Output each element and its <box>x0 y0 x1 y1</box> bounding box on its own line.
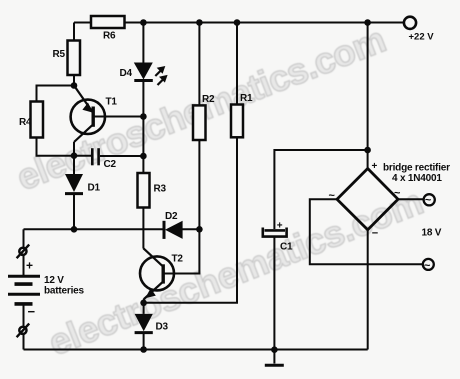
svg-text:~: ~ <box>424 260 431 272</box>
junction node T1 collector / C2 / D1 <box>71 152 78 159</box>
terminal +22V <box>404 17 416 29</box>
transistor T1 <box>71 86 105 156</box>
svg-text:T2: T2 <box>172 254 184 265</box>
wire D3 cathode to bottom rail <box>143 333 145 350</box>
wire D4 line from rail <box>142 23 144 63</box>
wire base node down to C2 node <box>142 117 144 157</box>
svg-text:~: ~ <box>329 190 336 202</box>
resistor R3 <box>138 173 150 208</box>
svg-text:R1: R1 <box>240 93 253 104</box>
bridge rectifier diamond <box>337 169 398 230</box>
label 12V batteries <box>44 275 85 297</box>
resistor R1 <box>231 105 243 138</box>
wire rail to +22V terminal <box>368 22 404 24</box>
svg-text:D1: D1 <box>88 183 101 194</box>
svg-text:C2: C2 <box>104 159 117 170</box>
wire bridge plus from top rail <box>367 23 369 169</box>
svg-text:+22 V: +22 V <box>409 32 435 43</box>
diode D2 <box>164 221 183 239</box>
svg-text:batteries: batteries <box>44 286 85 297</box>
terminal AC upper <box>424 194 435 206</box>
wire R3 bottom to T2 collector <box>142 208 144 249</box>
resistor R5 <box>68 41 81 76</box>
diode D1 <box>65 156 83 194</box>
wire R1 bottom to emitter rail <box>144 137 237 302</box>
svg-text:R2: R2 <box>202 94 215 105</box>
terminal AC lower <box>423 259 434 272</box>
junction node R5/R4/T1 emitter <box>71 82 78 89</box>
svg-text:12 V: 12 V <box>44 275 64 286</box>
junction node C1 / bottom rail <box>271 346 278 353</box>
ground stub <box>273 350 275 364</box>
junction node T1 base / D4 cathode <box>140 113 147 120</box>
capacitor C1 <box>263 220 287 236</box>
wire R1 top from rail <box>236 23 238 105</box>
junction node C2 / R3 <box>140 153 147 160</box>
svg-text:R6: R6 <box>103 31 116 42</box>
svg-text:T1: T1 <box>106 97 118 108</box>
svg-text:+: + <box>277 220 283 231</box>
wire bottom connector to bottom rail <box>23 334 25 349</box>
svg-text:D3: D3 <box>156 322 169 333</box>
wire node to R4 top <box>37 86 75 102</box>
resistor R2 <box>193 105 206 140</box>
svg-text:R4: R4 <box>19 117 32 128</box>
wire bottom rail <box>24 349 368 351</box>
svg-text:D2: D2 <box>165 211 178 222</box>
junction node top rail / bridge <box>364 19 371 26</box>
svg-text:−: − <box>28 304 36 319</box>
wire C2 node down to R3 <box>142 156 144 173</box>
resistor R4 <box>31 102 44 138</box>
svg-text:bridge rectifier: bridge rectifier <box>383 163 450 174</box>
wire bridge left corner loop to lower AC terminal <box>310 199 423 264</box>
wire C2 right to middle line <box>100 155 143 157</box>
svg-text:4 x 1N4001: 4 x 1N4001 <box>392 173 442 184</box>
junction node C1 top / bridge plus <box>364 147 371 154</box>
wire R5 bottom to node <box>73 75 75 86</box>
svg-text:R3: R3 <box>154 184 167 195</box>
svg-text:+: + <box>372 161 378 172</box>
svg-text:~: ~ <box>394 188 401 200</box>
capacitor C2 <box>92 148 98 165</box>
wire emitter node down to D3 <box>143 303 145 314</box>
wire R2 bottom to D2 node <box>198 140 200 229</box>
wire D4 to base node <box>142 81 144 117</box>
wire R2 top from rail <box>198 23 200 106</box>
svg-text:~: ~ <box>425 195 432 207</box>
LED D4 <box>134 63 168 86</box>
svg-text:R5: R5 <box>53 49 66 60</box>
diode D3 <box>135 314 153 333</box>
wire R4 bottom to node <box>37 138 75 156</box>
wire battery minus to bottom connector <box>23 305 25 327</box>
ground <box>265 364 284 367</box>
wire D2 anode to R2 line <box>183 228 200 230</box>
wire battery positive rail <box>24 228 163 230</box>
junction node T2 emitter / D3 / R1 <box>140 300 147 307</box>
junction node top rail / R1 <box>234 19 241 26</box>
connector terminal top (slashed circle) <box>17 245 30 259</box>
svg-text:C1: C1 <box>280 242 293 253</box>
wire C1 bottom to bottom rail <box>273 237 275 350</box>
wire T1 base <box>92 116 144 118</box>
svg-text:D4: D4 <box>120 68 133 79</box>
wire battery rail corner down to plus connector <box>23 229 25 247</box>
wire C1 top corner to bridge plus line <box>274 150 367 229</box>
resistor R6 <box>91 16 125 28</box>
junction node D3 / bottom rail <box>140 346 147 353</box>
label bridge rectifier <box>383 163 450 185</box>
junction node D1 / battery rail <box>71 226 78 233</box>
junction node top rail / R2 <box>196 19 203 26</box>
battery 12V <box>8 276 40 304</box>
junction node top rail / D4 <box>140 19 147 26</box>
svg-text:18 V: 18 V <box>422 228 442 239</box>
wire bridge minus down to bottom rail <box>367 230 369 350</box>
junction node D2 / R2 <box>196 226 203 233</box>
wire bridge right corner to upper AC terminal <box>398 198 424 200</box>
wire D1 cathode down to battery rail <box>73 195 75 229</box>
wire D2 node down and left to T2 base <box>164 229 200 273</box>
svg-text:−: − <box>372 228 378 240</box>
connector terminal bottom (slashed circle) <box>17 324 30 338</box>
wire top rail <box>74 22 404 24</box>
transistor T2 <box>140 248 174 302</box>
wire T1 collector node to C2 left <box>74 155 92 157</box>
svg-text:+: + <box>26 259 33 273</box>
wire R5 top from rail corner <box>73 23 75 41</box>
wire plus connector to battery <box>23 255 25 275</box>
